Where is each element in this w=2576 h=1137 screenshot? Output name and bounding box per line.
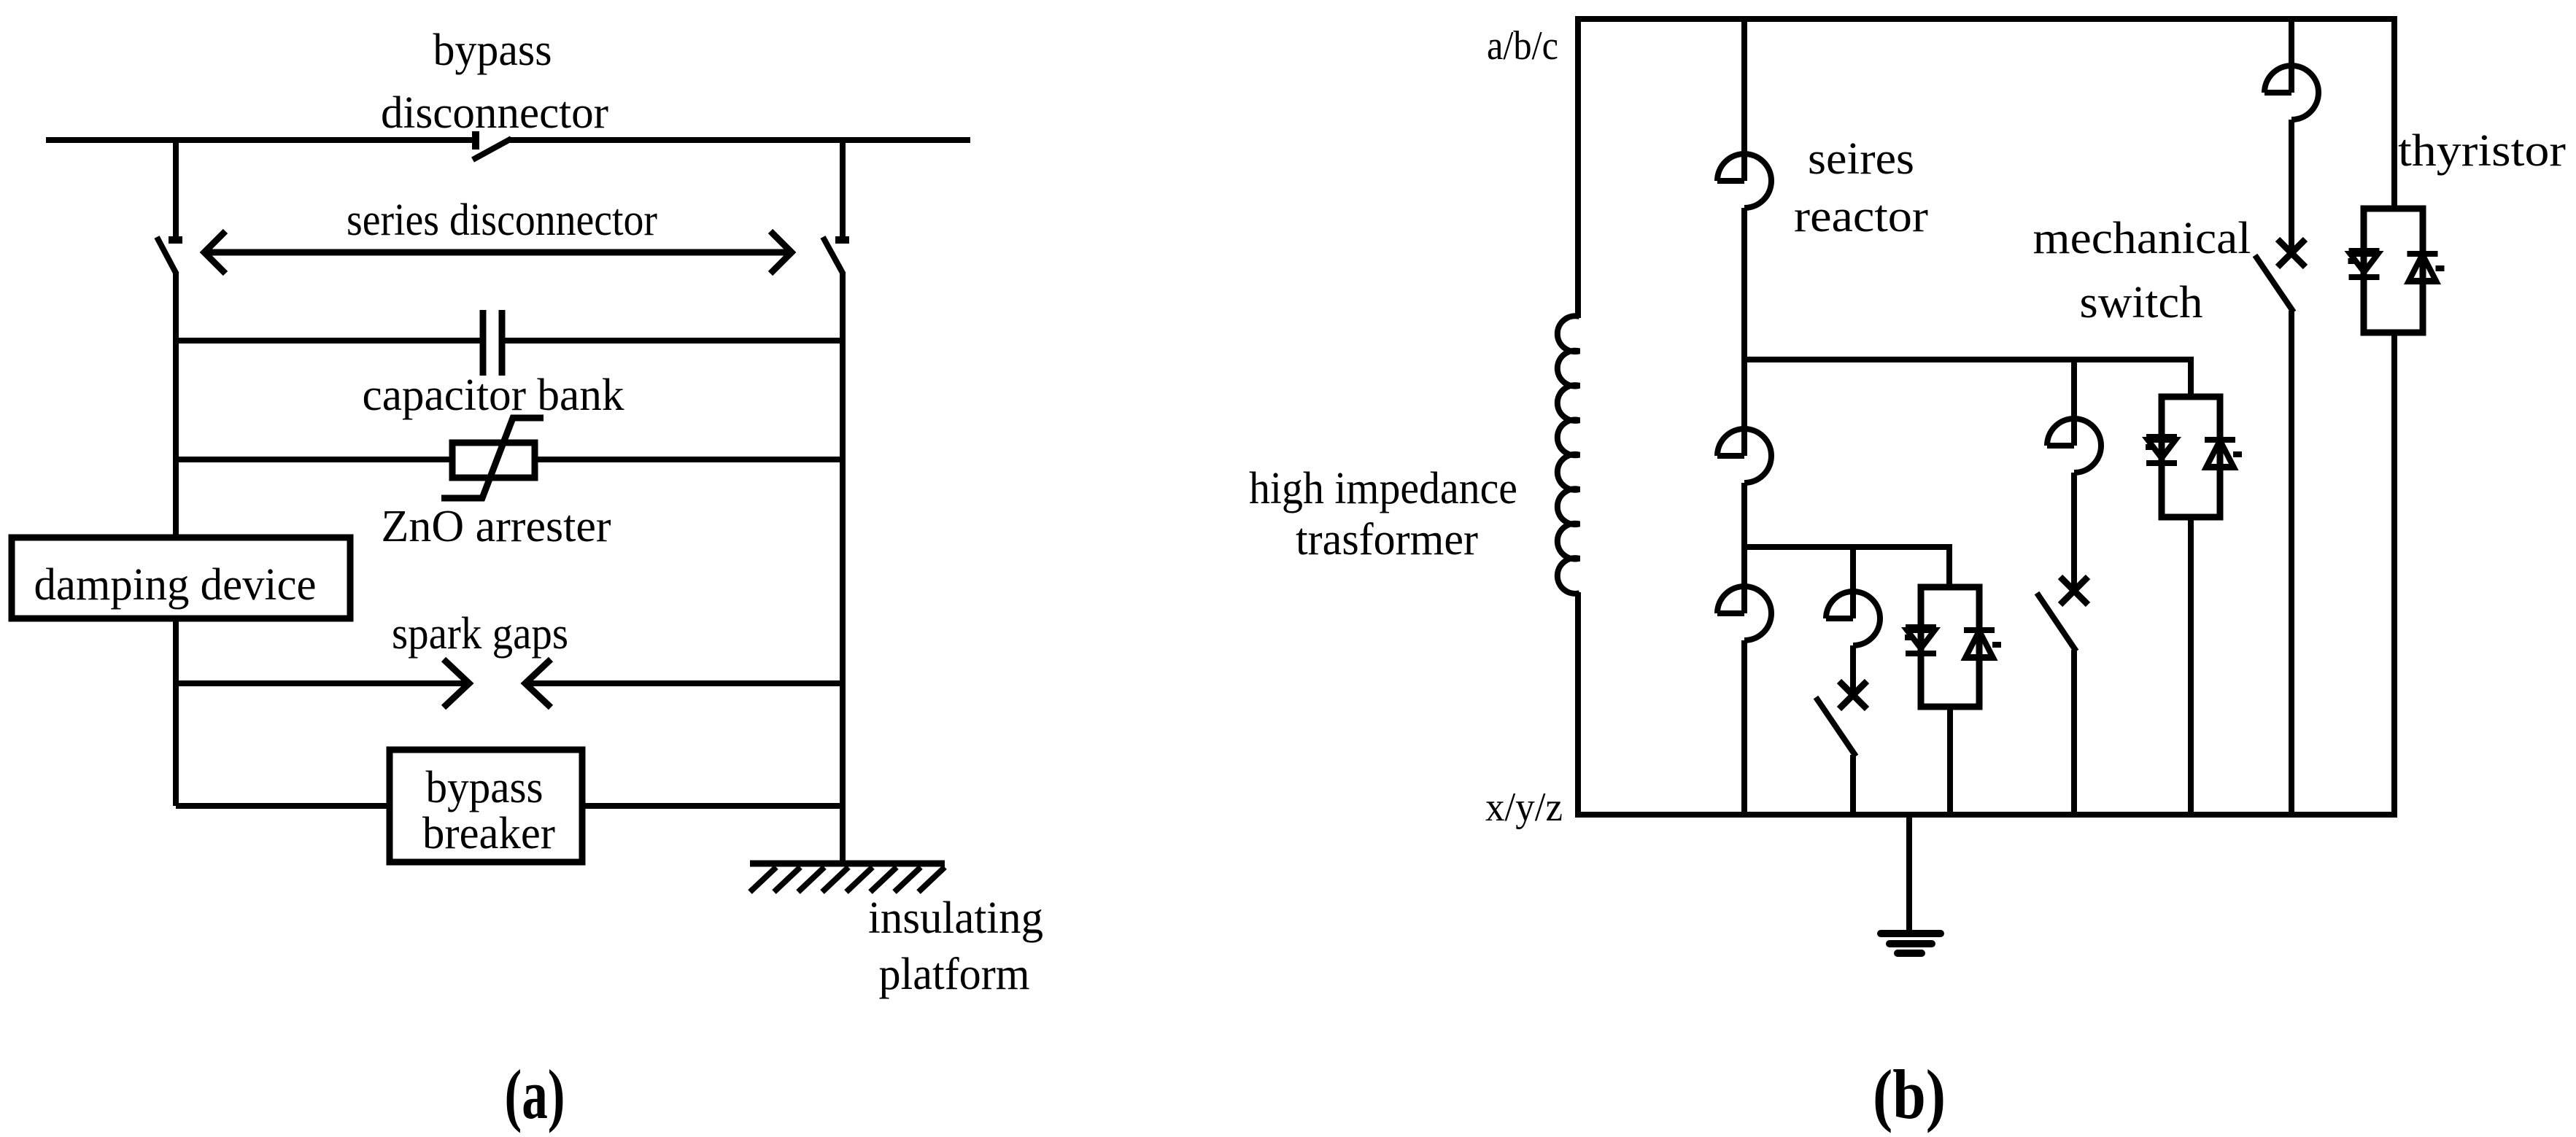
svg-text:thyristor: thyristor	[2398, 126, 2566, 176]
wire: branch C drop	[1850, 547, 1856, 618]
svg-text:spark gaps: spark gaps	[392, 609, 568, 659]
insulating platform hatch 5	[846, 867, 873, 892]
mechanical switch S1 blade	[2255, 255, 2294, 312]
wire: branch D middle	[2289, 120, 2294, 250]
wire: branch B middle	[2071, 473, 2077, 588]
svg-text:high impedance: high impedance	[1249, 464, 1517, 513]
bypass disconnector blade	[473, 139, 511, 160]
svg-text:series disconnector: series disconnector	[347, 195, 657, 245]
svg-text:mechanical: mechanical	[2033, 214, 2251, 263]
svg-text:a/b/c: a/b/c	[1487, 23, 1558, 69]
series disconnector right blade	[823, 237, 843, 274]
ZnO arrester slash	[441, 418, 544, 498]
ZnO arrester branch wire left	[176, 457, 452, 462]
reactor L4	[1717, 610, 1744, 616]
insulating platform hatch 8	[918, 867, 945, 892]
wire: second bus	[1744, 360, 2191, 397]
insulating platform hatch 4	[822, 867, 848, 892]
svg-text:seires: seires	[1808, 134, 1914, 184]
insulating platform hatch 3	[798, 867, 824, 892]
mechanical switch S2 blade	[2037, 593, 2076, 651]
spark gaps branch wire right	[527, 680, 843, 686]
bypass breaker box	[390, 750, 582, 862]
ZnO arrester branch wire right	[535, 457, 843, 462]
bottom branch wire left	[176, 803, 390, 809]
thyristor box T2	[2162, 397, 2220, 517]
series disconnector double arrow	[204, 231, 792, 273]
insulating platform hatch 6	[870, 867, 897, 892]
insulating platform hatch 2	[774, 867, 800, 892]
svg-text:capacitor bank: capacitor bank	[363, 370, 624, 420]
ground bar 1	[1881, 930, 1941, 937]
wire: branch A lower	[1741, 483, 1747, 613]
svg-text:switch: switch	[2080, 278, 2203, 327]
wire: left edge lower (b)	[1575, 592, 1581, 818]
reactor L2	[1717, 453, 1744, 459]
insulating platform bar	[750, 861, 945, 867]
insulating platform hatch 7	[894, 867, 921, 892]
ground bar 2	[1890, 940, 1932, 947]
wire: right vertical	[840, 273, 846, 864]
wire: right drop from bus	[840, 140, 846, 238]
wire: branch C lower	[1850, 755, 1856, 815]
wire: top bus right segment (a)	[508, 137, 970, 143]
wire: branch D from top bus	[2289, 19, 2294, 93]
bottom branch wire right	[582, 803, 843, 809]
wire: left drop from bus	[173, 140, 179, 238]
bypass disconnector contact tick	[472, 131, 479, 150]
wire: left vertical lower	[173, 618, 179, 806]
wire: left vertical upper	[173, 273, 179, 538]
wire: branch B drop	[2071, 360, 2077, 446]
wire: T2 to bottom bus	[2188, 517, 2194, 815]
capacitor bank branch wire left	[176, 338, 481, 344]
wire: branch A to bottom bus	[1741, 640, 1747, 815]
thyristor box T3	[1921, 587, 1979, 707]
wire: branch D lower	[2289, 311, 2294, 815]
thyristor box T1	[2364, 209, 2423, 333]
svg-text:(a): (a)	[505, 1055, 565, 1133]
series disconnector right contact tick	[835, 236, 849, 244]
wire: right edge thyristor branch upper	[2391, 16, 2397, 209]
wire: left edge upper (b)	[1575, 16, 1581, 318]
svg-text:disconnector: disconnector	[381, 88, 608, 138]
spark gaps branch wire left	[176, 680, 468, 686]
reactor L6	[2264, 90, 2291, 96]
svg-text:trasformer: trasformer	[1296, 515, 1478, 564]
svg-text:(b): (b)	[1873, 1055, 1946, 1133]
damping device box	[12, 538, 350, 618]
svg-text:x/y/z: x/y/z	[1485, 785, 1563, 830]
insulating platform hatch 1	[750, 867, 776, 892]
wire: top bus (b)	[1578, 16, 2394, 22]
series disconnector left blade	[157, 237, 177, 274]
ground wire	[1906, 815, 1912, 934]
spark gap right arrowhead	[525, 659, 551, 707]
spark gap left arrowhead	[444, 659, 469, 707]
svg-text:platform: platform	[879, 950, 1030, 999]
svg-text:insulating: insulating	[868, 893, 1043, 943]
series disconnector left contact tick	[169, 236, 182, 244]
mechanical switch S2 contact x	[2060, 577, 2088, 605]
ground bar 3	[1898, 950, 1922, 957]
thyristor pair in T2	[2146, 437, 2242, 467]
wire: T3 to bottom bus	[1947, 707, 1953, 815]
svg-text:damping device: damping device	[34, 560, 317, 610]
reactor L3	[2047, 443, 2074, 449]
mechanical switch S3 contact x	[1839, 681, 1867, 709]
mechanical switch S1 contact x	[2278, 239, 2305, 267]
capacitor C plates	[480, 310, 487, 376]
wire: branch A from top bus	[1741, 19, 1747, 181]
mechanical switch S3 blade	[1816, 697, 1856, 756]
ZnO arrester box	[452, 443, 535, 478]
svg-text:reactor: reactor	[1794, 192, 1928, 241]
wire: bottom bus x/y/z (b)	[1575, 812, 2397, 818]
capacitor bank branch wire right	[503, 338, 843, 344]
wire: branch B lower	[2071, 650, 2077, 815]
transformer winding coil	[1558, 316, 1579, 594]
wire: top bus left segment (a)	[46, 137, 476, 143]
svg-text:breaker: breaker	[422, 809, 555, 858]
wire: branch A middle	[1741, 208, 1747, 456]
svg-text:bypass: bypass	[426, 763, 544, 812]
svg-text:ZnO arrester: ZnO arrester	[382, 502, 611, 551]
reactor L5	[1826, 616, 1853, 621]
wire: third bus	[1744, 547, 1949, 587]
thyristor pair in T3	[1905, 627, 2001, 658]
thyristor pair in T1	[2348, 251, 2445, 282]
svg-text:bypass: bypass	[433, 26, 552, 75]
wire: branch C middle	[1850, 645, 1856, 692]
wire: right edge thyristor branch lower	[2391, 333, 2397, 818]
series reactor L1	[1717, 178, 1744, 184]
